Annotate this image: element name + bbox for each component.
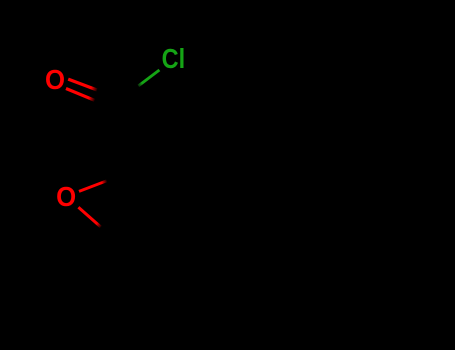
svg-text:O: O — [56, 181, 76, 212]
bond C1-Cl (green half near Cl) — [138, 70, 159, 86]
bond O2-C3 (red half near O2) — [78, 207, 100, 227]
bond C1=O1 double bond line 2 (red half near O1) — [66, 89, 95, 101]
bond C1=O1 double bond line 1 (red half near O1) — [68, 79, 97, 90]
svg-text:O: O — [45, 64, 65, 95]
svg-text:Cl: Cl — [162, 44, 186, 74]
bond O2-C2 (red half near O2) — [79, 181, 107, 192]
